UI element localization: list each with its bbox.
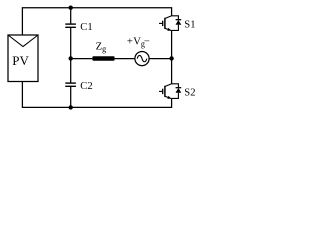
wire Zg to Vg source	[115, 58, 135, 60]
emitter diagonal	[165, 28, 172, 30]
svg-text:S2: S2	[184, 88, 195, 99]
gate lead	[159, 22, 163, 24]
svg-text:−: −	[144, 37, 150, 48]
collector diagonal	[165, 16, 172, 19]
impedance Zg (solid block)	[92, 56, 114, 61]
svg-text:C2: C2	[80, 81, 92, 92]
svg-text:S1: S1	[184, 20, 195, 31]
transistor S1 (IGBT with anti-parallel diode)	[159, 16, 181, 31]
svg-text:PV: PV	[12, 53, 29, 68]
diode loop bottom	[172, 25, 179, 31]
node junction bottom (C2 / bottom bus)	[69, 105, 73, 109]
transistor S2 (IGBT with anti-parallel diode)	[159, 84, 181, 99]
wire right bus between S1 emitter and S2 collector	[171, 30, 173, 83]
wire C1 lower lead	[70, 28, 72, 59]
wire C1 upper lead	[70, 8, 72, 24]
svg-text:+: +	[127, 36, 133, 47]
wire bottom bus from PV bottom to S2 emitter	[22, 82, 171, 108]
diode triangle	[176, 20, 182, 25]
node junction top (C1 / top bus)	[69, 6, 73, 10]
gate bar	[162, 21, 164, 26]
wire middle from node to Zg	[71, 58, 93, 60]
label + Vg -	[127, 36, 150, 48]
wire top bus from PV top to S1 collector	[22, 8, 171, 35]
diode cathode bar	[176, 19, 182, 21]
wire Vg to right bus	[149, 58, 172, 60]
capacitor C1	[65, 24, 76, 27]
wire C2 lower lead	[70, 87, 72, 108]
capacitor C2	[65, 83, 76, 86]
body bar	[164, 18, 166, 29]
ac source Vg	[135, 52, 149, 66]
node junction right bus / Vg	[169, 56, 173, 60]
PV panel	[8, 35, 38, 82]
svg-text:C1: C1	[80, 22, 92, 33]
diode loop top	[172, 16, 179, 19]
wire C2 upper lead	[70, 58, 72, 82]
node junction middle (C1 / C2 / Zg)	[69, 56, 73, 60]
emitter arrowhead	[167, 28, 171, 31]
